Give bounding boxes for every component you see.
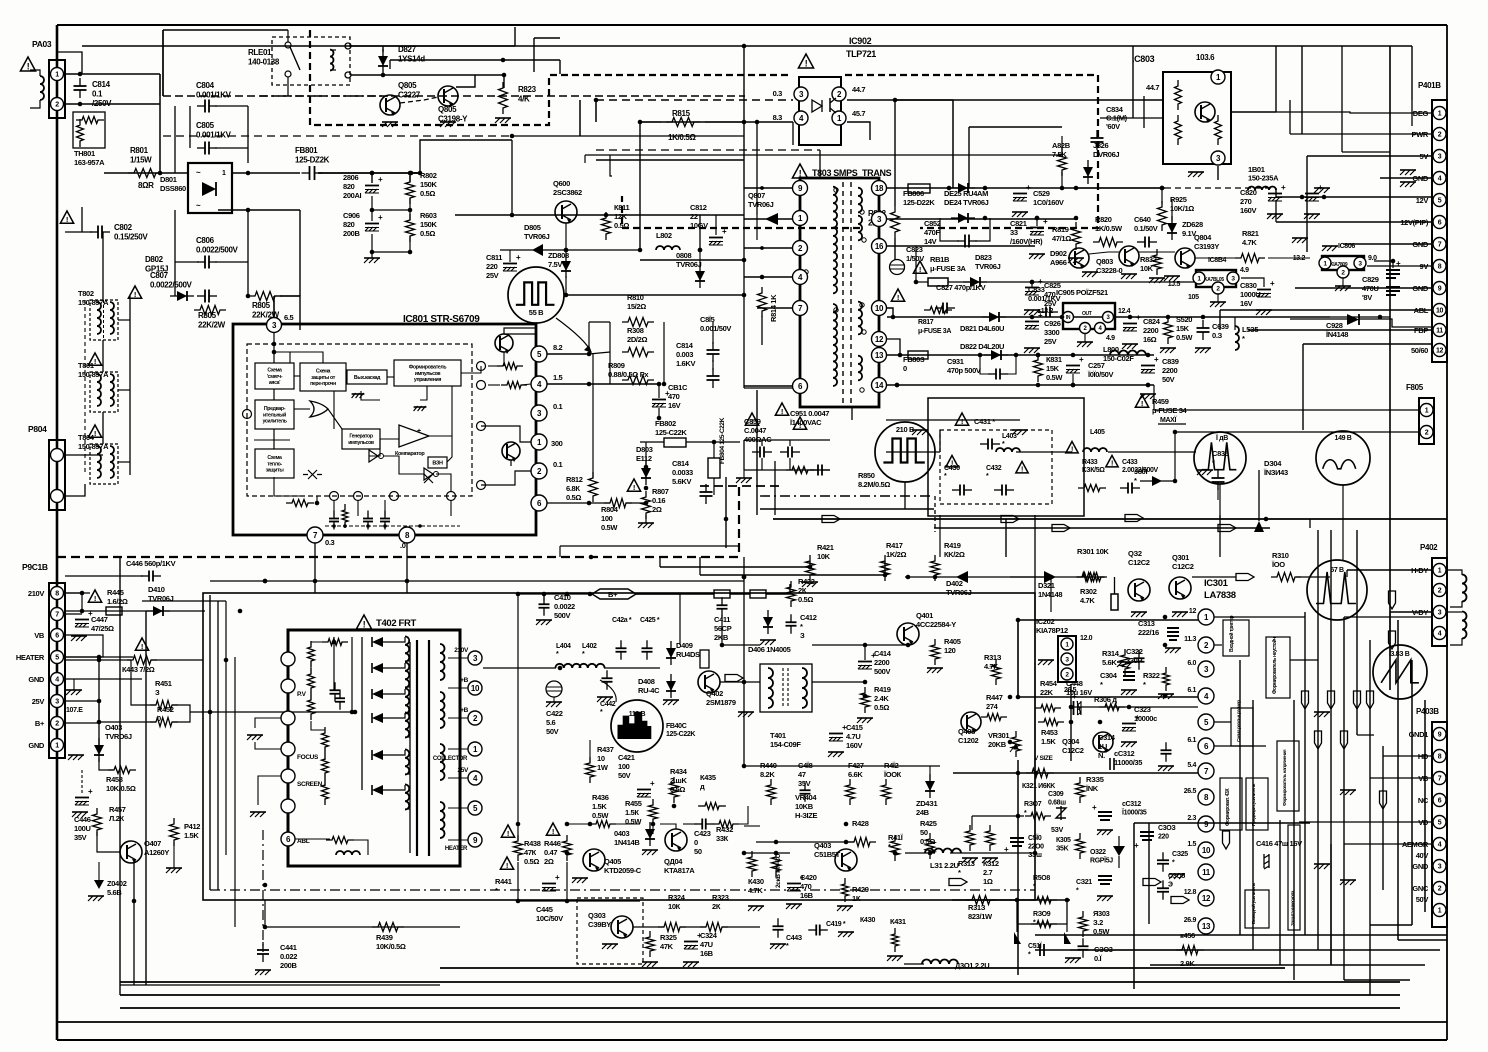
svg-text:1: 1 xyxy=(222,170,226,177)
svg-text:C447: C447 xyxy=(91,615,108,624)
svg-text:ZD628: ZD628 xyxy=(1182,220,1203,229)
svg-text:0.5W: 0.5W xyxy=(1176,333,1193,342)
svg-text:HEATER: HEATER xyxy=(445,846,468,852)
svg-text:C833: C833 xyxy=(1028,285,1045,294)
IC801 transistor top xyxy=(495,334,513,352)
wire 300V rail xyxy=(318,172,420,174)
svg-text:!: ! xyxy=(799,421,801,430)
svg-text:3: 3 xyxy=(1438,864,1442,871)
wire bottom bus lines xyxy=(57,1021,1447,1023)
svg-text:R429: R429 xyxy=(852,885,869,894)
long verticals lower right xyxy=(1017,760,1019,975)
svg-text:!: ! xyxy=(66,215,68,224)
svg-text:0.5W: 0.5W xyxy=(1046,373,1063,382)
wire left transformers xyxy=(102,232,104,300)
svg-text:0.Ї: 0.Ї xyxy=(1094,954,1103,963)
P9C1B extra wires xyxy=(65,592,90,594)
svg-text:импульсов: импульсов xyxy=(415,371,441,377)
svg-text:д: д xyxy=(700,782,705,791)
svg-text:C12С2: C12С2 xyxy=(1062,746,1084,755)
svg-text:125-C22K: 125-C22K xyxy=(655,428,687,437)
wire left bottom vertical2 xyxy=(145,611,147,985)
svg-text:!: ! xyxy=(781,407,783,416)
svg-text:12: 12 xyxy=(875,335,884,344)
svg-text:Ї0Ї0/50V: Ї0Ї0/50V xyxy=(1087,370,1113,379)
svg-text:D802: D802 xyxy=(145,255,164,264)
svg-text:Z0402: Z0402 xyxy=(107,879,127,888)
svg-text:TVR06Ј: TVR06Ј xyxy=(946,588,972,597)
svg-text:*: * xyxy=(1143,680,1146,689)
more dots bottom xyxy=(370,250,375,255)
LED inside IC902 xyxy=(812,100,822,112)
svg-text:C416 47ш 16V: C416 47ш 16V xyxy=(1256,839,1302,848)
svg-text:160V: 160V xyxy=(1240,206,1256,215)
svg-text:12K: 12K xyxy=(614,212,628,221)
svg-text:К811: К811 xyxy=(614,203,629,212)
wire hump circle down xyxy=(1219,515,1221,557)
svg-text:R814 1K: R814 1K xyxy=(769,294,778,322)
svg-text:10GV: 10GV xyxy=(690,221,708,230)
wire to P401B PWR xyxy=(1290,133,1432,135)
svg-text:Ї дB: Ї дB xyxy=(1215,434,1228,442)
svg-text:12: 12 xyxy=(1202,894,1211,903)
IC301 function block former 43X xyxy=(1220,778,1242,830)
svg-text:!: ! xyxy=(961,417,963,426)
svg-text:COLLECTOR: COLLECTOR xyxy=(433,756,468,762)
svg-text:'смягч-: 'смягч- xyxy=(267,374,283,380)
svg-text:!: ! xyxy=(363,619,366,629)
55V waveform circle xyxy=(508,267,564,323)
svg-text:!: ! xyxy=(1141,399,1143,408)
svg-text:MAXЇ: MAXЇ xyxy=(1160,416,1178,424)
resistor R438 47K xyxy=(501,825,514,837)
svg-text:З.2: З.2 xyxy=(1093,918,1103,927)
svg-text:0.47: 0.47 xyxy=(544,848,557,857)
svg-text:24В: 24В xyxy=(916,808,930,817)
svg-text:P401B: P401B xyxy=(1418,81,1441,90)
svg-text:P804: P804 xyxy=(28,424,47,434)
warning triangle T402 xyxy=(356,615,371,629)
svg-text:1.5K: 1.5K xyxy=(184,831,199,840)
warning triangle T803 xyxy=(792,164,807,178)
svg-text:RGPЇ5Ј: RGPЇ5Ј xyxy=(1090,857,1113,865)
svg-text:TH801: TH801 xyxy=(74,149,95,158)
svg-text:C415: C415 xyxy=(846,723,863,732)
svg-text:CЗ25: CЗ25 xyxy=(1172,851,1188,858)
wire L403 box to buses xyxy=(1005,519,1007,557)
wire Q405 bottom node xyxy=(565,899,570,904)
svg-text:R802: R802 xyxy=(420,171,437,180)
wire secondary row2 xyxy=(887,218,1078,220)
svg-text:820: 820 xyxy=(343,182,355,191)
wire maze x969 xyxy=(968,127,970,188)
svg-text:R457: R457 xyxy=(109,805,126,814)
svg-text:L402: L402 xyxy=(582,643,597,650)
svg-text:R314: R314 xyxy=(1102,649,1120,658)
svg-text:26.5: 26.5 xyxy=(1184,788,1197,795)
svg-text:0.5Ω: 0.5Ω xyxy=(420,189,435,198)
svg-text:2: 2 xyxy=(55,102,59,109)
svg-text:Q304: Q304 xyxy=(1062,737,1080,746)
svg-text:R823: R823 xyxy=(518,85,537,94)
svg-text:R801: R801 xyxy=(130,146,149,155)
svg-text:DE24 TVR06J: DE24 TVR06J xyxy=(944,198,989,207)
svg-text:10С/50V: 10С/50V xyxy=(536,914,563,923)
svg-text:C432: C432 xyxy=(986,465,1002,472)
svg-text:0.5W: 0.5W xyxy=(592,811,609,820)
svg-text:К435: К435 xyxy=(700,773,716,782)
svg-text:C820: C820 xyxy=(1240,188,1257,197)
relay contact circles xyxy=(345,43,351,49)
svg-text:TLP721: TLP721 xyxy=(846,49,876,59)
svg-text:11: 11 xyxy=(1436,328,1443,335)
svg-text:D408: D408 xyxy=(638,677,655,686)
wire x610 vertical xyxy=(610,155,612,176)
svg-text:1K/2Ω: 1K/2Ω xyxy=(886,550,906,559)
svg-text:DЗ04: DЗ04 xyxy=(1264,459,1282,468)
IC801 block pulse former xyxy=(394,360,461,386)
IC301 function block preamp xyxy=(1246,778,1268,830)
svg-text:+: + xyxy=(1135,713,1140,722)
svg-text:R805: R805 xyxy=(198,311,217,320)
svg-text:J826: J826 xyxy=(1093,141,1108,150)
svg-text:Вых.каскад: Вых.каскад xyxy=(354,375,381,381)
svg-text:0808: 0808 xyxy=(676,251,691,260)
svg-text:R445: R445 xyxy=(107,588,124,597)
svg-text:C313: C313 xyxy=(1138,619,1155,628)
svg-text:KTA817A: KTA817A xyxy=(664,866,695,875)
svg-text:ительный: ительный xyxy=(263,411,286,418)
grounds row2 xyxy=(1082,271,1098,273)
IC801 outer box xyxy=(233,324,536,535)
border frame outer xyxy=(56,25,59,1040)
svg-text:RЗО7: RЗО7 xyxy=(1024,801,1042,808)
svg-text:!: ! xyxy=(506,861,508,870)
svg-text:47/25Ω: 47/25Ω xyxy=(91,624,114,633)
svg-text:140-0138: 140-0138 xyxy=(248,58,280,67)
svg-text:0: 0 xyxy=(903,364,907,373)
svg-text:RЗО9: RЗО9 xyxy=(1033,911,1051,918)
svg-text:тепло-: тепло- xyxy=(267,461,282,467)
svg-text:К321 И6КK: К321 И6КK xyxy=(1022,783,1055,790)
capacitor C447 47/25W xyxy=(75,619,89,621)
svg-text:2D/2Ω: 2D/2Ω xyxy=(627,335,647,344)
svg-text:A966: A966 xyxy=(1050,258,1067,267)
svg-text:16В: 16В xyxy=(800,891,814,900)
svg-text:C3227: C3227 xyxy=(398,91,421,100)
wire smps bottom bus 3 xyxy=(760,508,934,510)
dash-dot inner line xyxy=(210,889,1035,891)
wire 50/60 long xyxy=(1303,343,1432,345)
svg-text:IC8B4: IC8B4 xyxy=(1208,257,1227,264)
wire bottom long rails xyxy=(120,984,440,986)
wire B+ row xyxy=(518,593,592,595)
svg-text:L405: L405 xyxy=(1090,429,1105,436)
svg-text:16В: 16В xyxy=(700,949,714,958)
T402 interior extra xyxy=(333,637,335,690)
svg-text:R433: R433 xyxy=(1082,459,1098,466)
svg-text:R453: R453 xyxy=(1041,728,1058,737)
svg-text:11000/35: 11000/35 xyxy=(1114,758,1142,767)
svg-text:*: * xyxy=(495,886,498,895)
svg-text:!: ! xyxy=(1111,460,1113,468)
svg-text:C433: C433 xyxy=(1122,459,1138,466)
svg-text:Q805: Q805 xyxy=(438,105,457,114)
svg-text:2Ω: 2Ω xyxy=(544,857,554,866)
svg-text:QД04: QД04 xyxy=(664,857,683,866)
svg-text:Q600: Q600 xyxy=(553,179,570,188)
svg-text:/160V(HR): /160V(HR) xyxy=(1010,237,1043,246)
wire top bus 1 xyxy=(82,45,1390,47)
svg-text:0.5W: 0.5W xyxy=(601,523,618,532)
svg-text:D902: D902 xyxy=(1050,249,1067,258)
svg-text:S520: S520 xyxy=(1176,315,1192,324)
svg-text:R405: R405 xyxy=(944,637,961,646)
wire row2 links xyxy=(1089,252,1119,254)
svg-text:2: 2 xyxy=(1438,588,1442,595)
svg-text:210V: 210V xyxy=(28,589,44,598)
wire mid verticals x=940 xyxy=(939,515,941,557)
svg-text:0.16: 0.16 xyxy=(652,496,665,505)
svg-text:12.4: 12.4 xyxy=(1118,308,1131,315)
svg-text:113 B: 113 B xyxy=(629,711,646,718)
wire IC801 pin3 up xyxy=(273,296,275,317)
svg-text:15K: 15K xyxy=(1046,364,1060,373)
svg-text:D801: D801 xyxy=(160,175,177,184)
svg-text:C926: C926 xyxy=(1044,319,1061,328)
svg-text:0.1: 0.1 xyxy=(553,460,563,469)
svg-text:L404: L404 xyxy=(556,643,571,650)
svg-text:*: * xyxy=(1100,680,1103,689)
svg-text:+: + xyxy=(378,213,383,222)
svg-text:4: 4 xyxy=(55,677,59,684)
wire pin1 to C814 xyxy=(65,73,160,75)
wire AC to bridge xyxy=(104,172,188,174)
resistor R446 0.47 2W xyxy=(546,823,559,835)
svg-text:6: 6 xyxy=(1438,220,1442,227)
transistor Q405 KTD2059 xyxy=(583,849,605,871)
svg-text:150-235A: 150-235A xyxy=(1248,174,1279,183)
svg-text:15/2Ω: 15/2Ω xyxy=(627,302,646,311)
capacitor C441 0.022 200V xyxy=(257,949,269,951)
transformer T803 secondary windings xyxy=(858,188,862,213)
svg-text:R454: R454 xyxy=(1040,679,1058,688)
solid box horizontal section xyxy=(203,593,1035,900)
svg-text:ЇNK: ЇNK xyxy=(1085,784,1099,793)
T402 grounds xyxy=(247,734,263,736)
wire C441 node xyxy=(263,925,268,930)
svg-text:+: + xyxy=(1004,845,1009,854)
svg-text:5: 5 xyxy=(1438,820,1442,827)
svg-text:HEATER: HEATER xyxy=(16,653,45,662)
wire pin12 row stub xyxy=(887,339,900,355)
57V waveform circle xyxy=(1307,560,1367,620)
resistor R325 47K xyxy=(646,931,655,957)
svg-text:DVR06Ј: DVR06Ј xyxy=(1093,150,1119,159)
svg-text:47U: 47U xyxy=(700,940,713,949)
svg-text:Ї1400VAC: Ї1400VAC xyxy=(789,418,822,427)
wire top right corner stubs xyxy=(1342,151,1390,153)
svg-text:0: 0 xyxy=(694,838,698,847)
more grounds smps xyxy=(912,429,928,431)
svg-text:25V: 25V xyxy=(457,767,469,774)
svg-text:R421: R421 xyxy=(817,543,834,552)
svg-text:4.7K: 4.7K xyxy=(1242,238,1257,247)
svg-text:P402: P402 xyxy=(1420,543,1438,552)
resistor R439 10K/0.5W xyxy=(372,923,404,932)
svg-text:Q301: Q301 xyxy=(1172,553,1189,562)
svg-text:11: 11 xyxy=(1202,868,1211,877)
wire maze v580 xyxy=(579,100,581,136)
dashed enclosure polygon top center xyxy=(310,30,790,125)
svg-text:1: 1 xyxy=(1438,111,1442,118)
svg-text:22: 22 xyxy=(690,212,698,221)
svg-text:C.0047: C.0047 xyxy=(744,426,766,435)
svg-text:33: 33 xyxy=(1010,228,1018,237)
svg-text:C12С2: C12С2 xyxy=(1128,558,1150,567)
wire GND rail xyxy=(1380,177,1432,179)
svg-text:270: 270 xyxy=(1240,197,1252,206)
svg-text:210V: 210V xyxy=(454,647,469,654)
svg-text:Q403: Q403 xyxy=(814,841,831,850)
svg-text:4.9: 4.9 xyxy=(1240,267,1249,274)
IC801 block overload protect xyxy=(300,363,346,391)
svg-text:TVR06Ј: TVR06Ј xyxy=(524,232,550,241)
T402 right pin stubs xyxy=(448,657,468,659)
svg-text:125-DZ2K: 125-DZ2K xyxy=(295,156,330,165)
svg-text:Формирователь: Формирователь xyxy=(409,364,447,370)
svg-text:R434: R434 xyxy=(670,767,688,776)
svg-text:З5K: З5K xyxy=(1056,846,1069,853)
svg-text:C805: C805 xyxy=(196,121,215,130)
svg-text:R436: R436 xyxy=(592,793,609,802)
warning triangle C430 xyxy=(946,456,958,467)
svg-text:470: 470 xyxy=(800,882,812,891)
svg-text:C445: C445 xyxy=(536,905,553,914)
svg-text:R308: R308 xyxy=(627,326,644,335)
svg-text:КЗК/5Ω: КЗК/5Ω xyxy=(1082,467,1105,474)
svg-text:2: 2 xyxy=(1425,430,1429,437)
IC301 function block voltage former xyxy=(1277,741,1299,811)
diode D406 1N4005 xyxy=(763,617,773,627)
svg-text:10u 16V: 10u 16V xyxy=(1066,688,1092,697)
svg-text:100: 100 xyxy=(601,514,613,523)
warning triangle C432 xyxy=(1016,462,1028,473)
svg-text:ЇООК: ЇООК xyxy=(883,770,902,779)
wire 9V to connector xyxy=(1367,265,1432,267)
transistor inside C803 xyxy=(1195,102,1215,122)
svg-text:1Ω: 1Ω xyxy=(983,877,993,886)
svg-text:DE25 RU4AM: DE25 RU4AM xyxy=(944,189,988,198)
wire from IC801 pin7 down xyxy=(314,557,316,593)
wire far right verticals xyxy=(1397,620,1399,940)
svg-text:QЗ2: QЗ2 xyxy=(1128,549,1142,558)
svg-text:C812: C812 xyxy=(690,203,707,212)
svg-text:Cхема: Cхема xyxy=(267,455,282,461)
svg-text:+: + xyxy=(800,873,805,882)
capacitor C449 100U xyxy=(75,797,89,799)
IC301 function block input trigger xyxy=(1223,620,1249,656)
svg-text:10: 10 xyxy=(1436,308,1444,315)
wire secondary area to bottom xyxy=(756,215,758,240)
svg-text:40V: 40V xyxy=(1416,851,1429,860)
svg-text:C931: C931 xyxy=(947,357,964,366)
svg-text:100U: 100U xyxy=(74,824,91,833)
svg-text:8.2: 8.2 xyxy=(553,343,563,352)
wire R815 net xyxy=(595,100,597,122)
svg-text:усилитель: усилитель xyxy=(262,419,286,425)
IC801 inverter 1 xyxy=(369,450,378,462)
svg-text:5: 5 xyxy=(1438,198,1442,205)
svg-text:222/16: 222/16 xyxy=(1138,628,1159,637)
svg-text:+: + xyxy=(1396,259,1401,268)
svg-text:R447: R447 xyxy=(986,693,1003,702)
warning triangle T804 xyxy=(88,425,101,437)
wire IC902 pin1 xyxy=(847,122,870,140)
IC801 VZN box xyxy=(428,457,447,468)
IC801 pin7 pin8 wires down xyxy=(314,543,316,557)
svg-text:0.0033: 0.0033 xyxy=(672,468,693,477)
svg-text:470F: 470F xyxy=(924,228,940,237)
svg-text:C431 *: C431 * xyxy=(974,417,995,426)
svg-text:R5О8: R5О8 xyxy=(1033,875,1050,882)
svg-text:!: ! xyxy=(552,827,554,836)
svg-text:R324: R324 xyxy=(668,893,686,902)
svg-text:1/50V: 1/50V xyxy=(906,254,924,263)
svg-text:4.9: 4.9 xyxy=(1106,335,1115,342)
svg-text:+B: +B xyxy=(460,707,468,714)
svg-text:823/1W: 823/1W xyxy=(968,912,993,921)
svg-text:SCREEN: SCREEN xyxy=(297,781,323,788)
svg-text:Cхема: Cхема xyxy=(267,367,282,373)
arrow blobs bottom xyxy=(1171,897,1189,904)
svg-text:C324: C324 xyxy=(700,931,718,940)
svg-text:C814: C814 xyxy=(92,80,111,89)
transistor Q805b xyxy=(438,86,458,106)
svg-text:CЗ9ВY: CЗ9ВY xyxy=(588,920,611,929)
wire frame h-links xyxy=(1214,616,1305,618)
svg-text:Формирователь напряжения: Формирователь напряжения xyxy=(1282,749,1287,806)
mixer arrow xyxy=(744,825,760,827)
svg-text:4.7K: 4.7K xyxy=(748,886,763,895)
svg-text:C839: C839 xyxy=(1162,357,1179,366)
svg-text:55 B: 55 B xyxy=(529,308,544,317)
junction dots pass4 xyxy=(638,120,643,125)
svg-text:T803 SMPS_TRANS: T803 SMPS_TRANS xyxy=(812,168,892,178)
svg-text:+: + xyxy=(1043,217,1048,226)
svg-text:A1260Y: A1260Y xyxy=(144,848,169,857)
svg-text:0.5Ω: 0.5Ω xyxy=(614,221,629,230)
svg-text:C414: C414 xyxy=(874,649,892,658)
IC301 left vertical wire xyxy=(1017,620,1019,697)
svg-text:820: 820 xyxy=(343,220,355,229)
svg-text:1C0/160V: 1C0/160V xyxy=(1033,198,1064,207)
svg-text:6: 6 xyxy=(55,633,59,640)
T402 left pins xyxy=(281,652,295,666)
IC801 right pins xyxy=(531,346,547,362)
svg-text:10К: 10К xyxy=(668,902,681,911)
svg-text:0.1: 0.1 xyxy=(553,402,563,411)
T402 ABL pin xyxy=(281,832,295,846)
svg-text:D406 1N4005: D406 1N4005 xyxy=(748,645,791,654)
3.82V waveform circle xyxy=(1373,645,1427,699)
svg-text:ЇОО: ЇОО xyxy=(1271,560,1285,569)
svg-text:10KВ: 10KВ xyxy=(795,802,814,811)
svg-text:TVR06Ј: TVR06Ј xyxy=(975,262,1001,271)
svg-text:!: ! xyxy=(751,417,753,426)
resistor R412 1.5K xyxy=(170,818,179,846)
svg-text:4/K: 4/K xyxy=(518,95,530,104)
